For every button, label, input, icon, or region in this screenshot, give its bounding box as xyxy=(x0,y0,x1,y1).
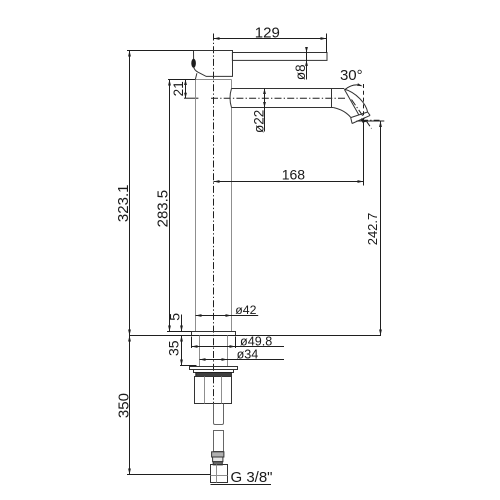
dim 129 line xyxy=(214,38,327,40)
dim 129 arrows xyxy=(214,37,327,40)
hose collar 2 xyxy=(213,457,223,462)
svg-text:30°: 30° xyxy=(340,67,363,84)
spout centerline dash-dot xyxy=(211,97,346,99)
svg-text:242.7: 242.7 xyxy=(365,213,380,246)
hex nut horizontal split xyxy=(211,475,228,477)
dim 5 line xyxy=(181,315,183,332)
dim 283.5 bottom extension xyxy=(167,331,192,333)
head neck line xyxy=(195,73,197,79)
dim o8 arrows xyxy=(305,47,308,66)
dim 323.1 arrows xyxy=(128,51,131,336)
spout nose bottom curve xyxy=(333,108,350,118)
shank left edge xyxy=(199,336,201,367)
spout centerline solid left stub xyxy=(184,97,198,99)
hose collar 3 xyxy=(213,462,222,465)
G38 hex nut xyxy=(211,465,228,483)
outlet horizontal centerline xyxy=(361,119,380,121)
lever pivot xyxy=(191,59,196,68)
faucet head xyxy=(194,51,233,77)
dim 35 bottom arrow xyxy=(180,360,183,366)
mounting nut flats xyxy=(205,377,222,404)
svg-text:129: 129 xyxy=(255,25,280,42)
dim 242.7 arrows xyxy=(379,121,382,336)
dim 21 arrows xyxy=(184,80,187,99)
body column right edge lower xyxy=(231,108,233,332)
outlet aerator band xyxy=(351,112,370,124)
label underline G38 xyxy=(211,484,272,486)
svg-text:5: 5 xyxy=(166,313,182,321)
shank right edge xyxy=(227,336,229,367)
dim 283.5 line xyxy=(169,80,171,332)
dim o34 arrows xyxy=(200,358,228,361)
dim 21 line xyxy=(185,80,187,99)
svg-text:283.5: 283.5 xyxy=(154,190,171,228)
angle reference dashed line xyxy=(363,84,365,121)
svg-text:G 3/8": G 3/8" xyxy=(231,469,273,486)
dim 35 line xyxy=(181,336,183,366)
spout nose seam xyxy=(345,90,359,115)
dim o42 line xyxy=(196,315,259,317)
washer lip xyxy=(194,370,234,373)
body column left edge xyxy=(195,80,197,332)
mounting nut xyxy=(195,377,232,404)
dim 350 arrows xyxy=(128,336,131,475)
svg-text:323.1: 323.1 xyxy=(115,185,132,223)
svg-text:ø22: ø22 xyxy=(251,110,266,133)
hose collar 1 xyxy=(212,452,224,457)
dim o22 line xyxy=(264,89,266,132)
spout body junction arc xyxy=(230,89,232,108)
svg-text:35: 35 xyxy=(166,340,182,356)
spout nose outer top curve xyxy=(344,89,368,112)
flange extension stubs xyxy=(192,337,236,349)
dim 350 bottom extension xyxy=(127,474,211,476)
dim o49.8 arrows xyxy=(192,345,236,348)
svg-text:ø42: ø42 xyxy=(235,303,256,317)
body column right edge upper xyxy=(231,80,233,89)
nose axis centerline 30deg xyxy=(352,100,372,129)
dim o42 arrows xyxy=(196,314,232,317)
dim 323.1 line xyxy=(129,51,131,336)
dim 323.1 top extension xyxy=(127,50,194,52)
dim 242.7 line xyxy=(380,121,382,336)
centerline vertical body axis xyxy=(213,34,215,405)
dim 129 right extension xyxy=(326,34,328,53)
spout tube top edge xyxy=(232,88,345,90)
svg-text:168: 168 xyxy=(282,167,306,183)
spout tube bottom edge xyxy=(232,107,334,109)
dim 350 line xyxy=(129,336,131,475)
dim 168 line xyxy=(214,181,364,183)
locknut washer xyxy=(190,367,238,370)
dim o22 arrows xyxy=(263,89,266,108)
hex nut flat line xyxy=(216,465,218,483)
outlet tick arrow xyxy=(361,118,366,123)
dim 30deg arrow xyxy=(357,83,363,86)
spout joint vertical xyxy=(331,89,333,108)
extension line to 168 xyxy=(363,121,365,186)
svg-text:ø49.8: ø49.8 xyxy=(240,334,272,348)
dim o8 line xyxy=(306,47,308,79)
dim 283.5 arrows xyxy=(168,80,171,332)
svg-text:21: 21 xyxy=(171,81,186,96)
body column top edge xyxy=(196,79,232,81)
dim o49.8 line xyxy=(192,346,285,348)
hose section xyxy=(214,431,224,452)
dim 5 arrows xyxy=(180,326,183,342)
dim 21 top extension xyxy=(168,79,196,81)
base flange xyxy=(192,332,236,336)
dim 30deg arc xyxy=(345,85,361,90)
dim 35 bottom extension xyxy=(180,365,197,367)
countertop line xyxy=(130,335,381,337)
svg-text:350: 350 xyxy=(116,393,133,418)
dim 242.7 top extension xyxy=(357,120,385,122)
handle lever xyxy=(232,53,327,61)
svg-text:ø8: ø8 xyxy=(293,64,308,80)
dim o34 line xyxy=(200,359,285,361)
tailpipe xyxy=(214,404,224,425)
gasket xyxy=(196,373,232,377)
dim 168 arrows xyxy=(214,180,364,183)
svg-text:ø34: ø34 xyxy=(237,347,259,361)
